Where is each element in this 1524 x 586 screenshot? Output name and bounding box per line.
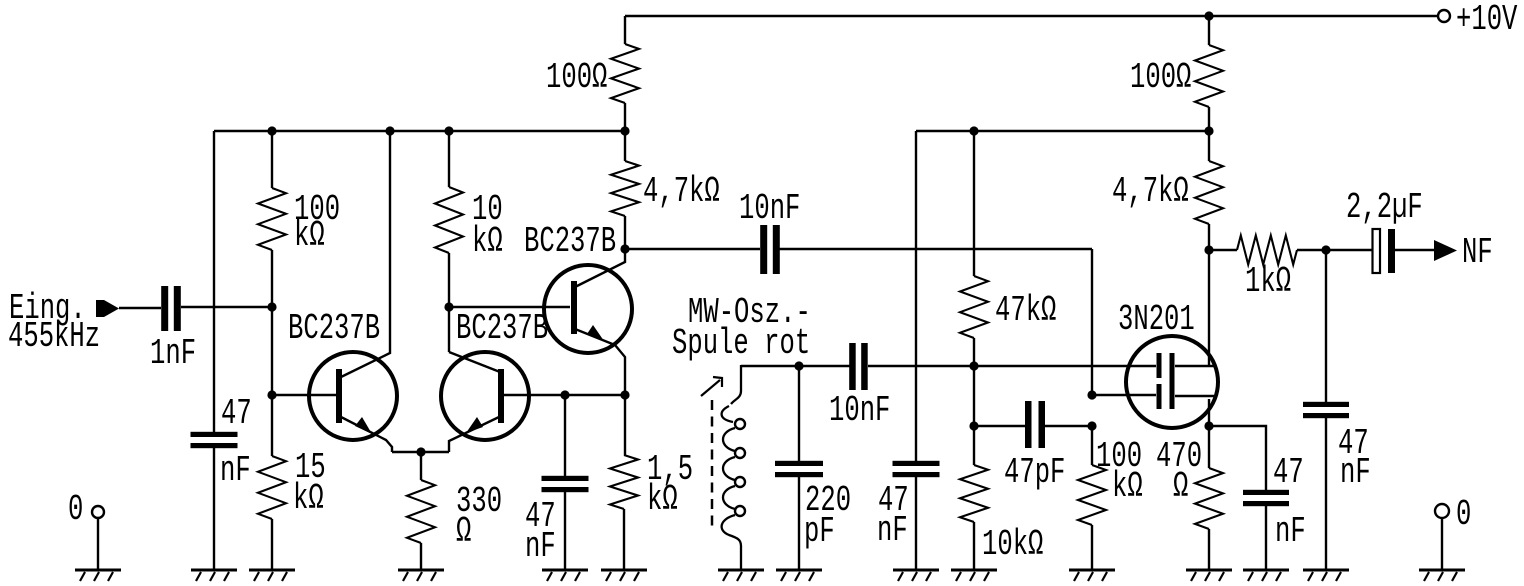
wire: C5 to gate2 <box>868 365 1156 367</box>
U1 source lead <box>1175 395 1215 397</box>
svg-text:kΩ: kΩ <box>1112 467 1143 507</box>
capacitor C2 47nF <box>191 432 238 437</box>
svg-text:kΩ: kΩ <box>293 479 324 519</box>
wire: R11 to drain node <box>1208 224 1210 366</box>
wire: Q3 base lead <box>449 306 570 308</box>
svg-text:3N201: 3N201 <box>1118 300 1195 340</box>
resistor R6 100 <box>611 44 639 103</box>
node: rail/390 (Q1 collector) <box>385 126 394 135</box>
ground (R9) <box>951 569 997 572</box>
+10V terminal circle <box>1438 10 1450 22</box>
ground (C2) <box>191 569 237 572</box>
svg-text:Ω: Ω <box>456 512 471 552</box>
node: +10V junction at 100-ohm right <box>1204 11 1213 20</box>
Q2 collector lead <box>449 352 500 372</box>
Q1 emitter lead <box>341 417 392 452</box>
svg-text:Ω: Ω <box>1173 467 1188 507</box>
terminal circle 0 right <box>1435 504 1449 518</box>
wire: +10V to R6 <box>624 16 626 44</box>
capacitor C4 10nF <box>760 225 767 274</box>
svg-text:+10V: +10V <box>1456 0 1518 40</box>
capacitor C9 47nF <box>1243 490 1289 495</box>
wire: R12 to ground <box>1091 525 1093 570</box>
node: Q3 collector junction <box>620 244 629 253</box>
svg-text:47: 47 <box>1273 453 1304 493</box>
terminal circle 0 left <box>92 506 104 518</box>
wire: R2 to ground <box>271 519 273 570</box>
svg-text:455kHz: 455kHz <box>8 317 100 357</box>
node: emitter junction <box>416 447 425 456</box>
wire: rail to C2 <box>213 131 215 433</box>
resistor R12 100k <box>1078 465 1106 525</box>
ground (C3) <box>542 569 588 572</box>
wire: rail to C8 <box>915 131 917 462</box>
coil L1 winding <box>731 365 741 404</box>
wire: osc to C5 <box>799 365 850 367</box>
wire: emitter bus <box>392 451 449 453</box>
resistor R9 10k <box>960 465 988 522</box>
wire: divider to R9 <box>973 366 975 465</box>
wire: C2 to ground <box>213 447 215 570</box>
node: divider junction <box>969 361 978 370</box>
wire: coil to osc node <box>741 365 799 367</box>
svg-text:0: 0 <box>1456 495 1471 535</box>
svg-text:kΩ: kΩ <box>647 480 678 520</box>
wire: U1 source down <box>1208 399 1210 426</box>
wire: gate1 drop <box>1091 249 1093 395</box>
wire: osc to C6 <box>798 366 800 463</box>
node: rail/1209 <box>1204 126 1213 135</box>
mosfet U1 circle <box>1126 336 1218 428</box>
wire: R4 to ground <box>420 543 422 570</box>
node: Q3 emitter junction <box>620 390 629 399</box>
input arrow <box>96 300 119 317</box>
transistor Q2 circle <box>441 352 529 440</box>
Q3 collector lead <box>575 250 625 287</box>
svg-text:100Ω: 100Ω <box>546 58 607 98</box>
capacitor C6 220pF <box>775 461 823 466</box>
wire: C11 to NF arrow <box>1395 249 1434 251</box>
wire: R7 to output node <box>624 216 626 250</box>
resistor R1 100k <box>258 188 286 250</box>
node: rail/974 <box>969 126 978 135</box>
resistor R11 4.7k <box>1195 161 1223 224</box>
resistor R4 330 <box>407 480 435 543</box>
svg-text:nF: nF <box>1275 512 1306 552</box>
wire: Q3 emitter to R5 <box>624 395 626 455</box>
resistor R2 15k <box>258 456 286 519</box>
U1 gate bar (split) <box>1157 353 1162 378</box>
Q3 emitter arrow <box>587 325 604 341</box>
Q2 base lead <box>501 394 565 396</box>
ground (C8) <box>893 569 939 572</box>
node: C7 junction right <box>1087 421 1096 430</box>
wire: C9 to ground <box>1265 505 1267 570</box>
transistor Q3 circle <box>544 265 632 353</box>
svg-text:kΩ: kΩ <box>294 216 325 256</box>
coil L1 trimmer arrow <box>701 380 720 396</box>
Q2 base bar <box>498 369 504 423</box>
wire: C1 to bias node <box>181 306 272 308</box>
Q1 emitter arrow <box>355 417 372 434</box>
svg-text:BC237B: BC237B <box>524 222 616 262</box>
wire: R3 to Q2 collector <box>448 253 450 352</box>
node: Q3 base junction <box>444 302 453 311</box>
wire: C3 top <box>564 395 566 476</box>
node: drain junction <box>1204 245 1213 254</box>
node: gate1 junction <box>1087 390 1096 399</box>
wire: R10 to rail <box>1208 107 1210 131</box>
wire: C7 right lead <box>1045 425 1092 427</box>
svg-text:pF: pF <box>804 512 835 552</box>
resistor R7 4.7k <box>611 161 639 216</box>
Q2 emitter arrow <box>466 417 483 433</box>
wire: left bias rail <box>214 130 625 132</box>
svg-text:nF: nF <box>1340 453 1371 493</box>
capacitor C7 47pF <box>1025 401 1032 448</box>
output arrow NF <box>1434 240 1457 261</box>
svg-text:47: 47 <box>221 394 252 434</box>
Q3 emitter lead <box>575 329 625 395</box>
svg-text:47kΩ: 47kΩ <box>995 291 1056 331</box>
Q1 base bar <box>336 369 342 423</box>
wire: C6 to ground <box>798 475 800 570</box>
ground (0 left) <box>75 569 121 572</box>
wire: R14 to out node <box>1297 249 1372 251</box>
Q3 base bar <box>571 281 577 334</box>
capacitor C5 10nF (osc) <box>849 343 856 390</box>
wire: input to C1 <box>119 307 161 309</box>
svg-text:kΩ: kΩ <box>472 222 503 262</box>
wire: R9 to ground <box>973 522 975 570</box>
wire: right bias rail <box>916 130 1209 132</box>
wire: gate1 lead <box>1092 394 1156 396</box>
resistor R3 10k <box>435 187 463 253</box>
node: rail/272 <box>267 126 276 135</box>
ground (C9) <box>1243 569 1289 572</box>
node: input/bias junction <box>267 302 276 311</box>
wire: R13 to ground <box>1208 529 1210 570</box>
wire: R8 to divider node <box>973 338 975 366</box>
svg-text:0: 0 <box>68 490 83 530</box>
node: osc junction <box>794 361 803 370</box>
coil L1 taps <box>735 419 745 429</box>
wire: out node to C10 <box>1325 250 1327 403</box>
svg-text:4,7kΩ: 4,7kΩ <box>1112 172 1189 212</box>
svg-text:2,2µF: 2,2µF <box>1346 188 1423 228</box>
wire: R6 to rail <box>624 103 626 131</box>
ground (R5) <box>601 569 647 572</box>
capacitor C10 47nF <box>1303 402 1349 407</box>
coil L1 core (dashed) <box>711 400 714 532</box>
wire: C8 to ground <box>915 476 917 570</box>
svg-text:1nF: 1nF <box>150 334 196 374</box>
U1 channel bar <box>1170 353 1175 409</box>
wire: output node to C4 <box>625 248 760 250</box>
resistor R13 470 <box>1195 468 1223 529</box>
svg-text:NF: NF <box>1462 233 1493 273</box>
wire: +10V to R10 <box>1208 16 1210 45</box>
wire: drain node to R14 <box>1209 249 1237 251</box>
resistor R8 47k <box>960 276 988 338</box>
wire: rail to R11 <box>1208 131 1210 161</box>
capacitor C11 2.2uF <box>1373 229 1381 273</box>
svg-text:10nF: 10nF <box>829 391 890 431</box>
svg-text:10kΩ: 10kΩ <box>982 525 1043 565</box>
svg-text:1kΩ: 1kΩ <box>1245 262 1291 302</box>
node: C7 junction left <box>969 421 978 430</box>
capacitor C3 47nF <box>542 476 589 481</box>
resistor R5 1.5k <box>610 455 638 509</box>
Q2 emitter lead <box>449 417 499 452</box>
resistor R14 1k <box>1237 236 1297 265</box>
svg-text:47pF: 47pF <box>1004 453 1065 493</box>
wire: rail to R8 <box>973 131 975 276</box>
wire: rail to R7 <box>624 131 626 161</box>
ground (C10) <box>1303 569 1349 572</box>
ground (L1) <box>718 569 764 572</box>
node: source junction <box>1204 421 1213 430</box>
svg-text:BC237B: BC237B <box>288 309 380 349</box>
svg-text:nF: nF <box>525 527 556 567</box>
svg-text:100Ω: 100Ω <box>1130 58 1191 98</box>
wire: Q1 base lead <box>272 394 336 396</box>
wire: C3 to ground <box>564 491 566 570</box>
+10V supply rail (top wire) <box>625 15 1437 17</box>
node: rail/449 <box>444 126 453 135</box>
wire: rail to R1 <box>271 131 273 188</box>
resistor R10 100 <box>1195 45 1223 107</box>
wire: emitters to R4 <box>420 452 422 480</box>
node: C3 junction <box>560 390 569 399</box>
ground (R4) <box>398 569 444 572</box>
svg-text:nF: nF <box>877 511 908 551</box>
wire: C10 to ground <box>1325 417 1327 570</box>
capacitor C8 47nF <box>893 461 940 466</box>
Q1 collector lead <box>341 131 390 377</box>
node: rail/625 <box>620 126 629 135</box>
wire: rail to R3 <box>448 131 450 187</box>
ground (R13) <box>1186 569 1232 572</box>
capacitor C1 1nF <box>161 286 168 331</box>
wire: 0 terminal to ground <box>97 518 99 570</box>
transistor Q1 circle <box>309 352 397 440</box>
wire: C7 left lead <box>974 425 1025 427</box>
U1 drain lead <box>1175 365 1216 367</box>
svg-text:4,7kΩ: 4,7kΩ <box>643 172 720 212</box>
ground (0 right) <box>1419 569 1465 572</box>
wire: R1 to base node <box>271 250 273 456</box>
wire: Q2 base to Q3 emitter <box>565 394 625 396</box>
ground (R12) <box>1069 569 1115 572</box>
ground (C6) <box>776 569 822 572</box>
wire: C4 to gate1 drop <box>779 248 1092 250</box>
ground (R2) <box>249 569 295 572</box>
wire: gate1 to R12 <box>1091 426 1093 465</box>
wire: R5 to ground <box>623 509 625 570</box>
svg-text:BC237B: BC237B <box>456 309 548 349</box>
svg-text:Spule rot: Spule rot <box>672 324 810 364</box>
wire: source to C9 <box>1209 426 1266 491</box>
wire: 0 right to ground <box>1441 518 1443 570</box>
svg-text:10nF: 10nF <box>739 189 800 229</box>
node: output junction <box>1321 245 1330 254</box>
node: Q1 base junction <box>267 390 276 399</box>
svg-text:nF: nF <box>220 451 251 491</box>
wire: source to R13 <box>1208 426 1210 468</box>
